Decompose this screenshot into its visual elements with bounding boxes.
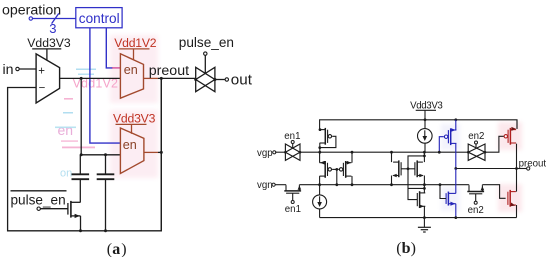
supply stub to U1 xyxy=(46,49,48,61)
wire Q5 Q6 gates tied xyxy=(401,168,415,170)
wire Q6 drain to vgp row xyxy=(423,152,425,162)
current source I2 xyxy=(418,129,433,144)
transmission gate TG3 xyxy=(468,144,485,160)
wire pulse_en to Q1 gate xyxy=(41,208,68,210)
wire Q7 source to bottom rail xyxy=(423,206,425,217)
wire operation to control xyxy=(33,18,76,20)
wire pulse_en to TG1 xyxy=(204,55,206,73)
node vgn CS1 xyxy=(318,183,321,186)
supply bar Vdd3V3 b xyxy=(416,109,436,111)
node vgp Q5 xyxy=(390,151,393,154)
stub N2 left to vgn xyxy=(468,185,470,186)
node vgp Q9 gate xyxy=(438,151,441,154)
node TG1 input xyxy=(194,78,197,81)
wire Q5 drain to vgp row xyxy=(391,152,393,162)
svg-text:in: in xyxy=(3,62,14,78)
terminal en2 bottom xyxy=(474,201,477,204)
node rail blue PMOS xyxy=(454,118,457,121)
node mirror gates xyxy=(407,167,410,170)
wire N1 gate to terminal xyxy=(292,193,294,200)
op-amp U1 xyxy=(36,54,60,103)
red NMOS Q12 xyxy=(509,190,511,207)
wire in to U1 plus xyxy=(19,68,36,70)
cascode PMOS Q4 xyxy=(345,161,347,178)
node cap rail C2 xyxy=(104,153,107,156)
wire down to cap node xyxy=(80,78,82,154)
wire TG1 to out xyxy=(215,79,225,81)
svg-text:): ) xyxy=(411,240,416,257)
wire Q9 gate to vgp row (blue) xyxy=(439,137,444,153)
wire U1 output xyxy=(60,77,121,79)
supply bar Vdd3V3 U3 xyxy=(116,123,147,125)
pink halo around red amp U3 region xyxy=(110,110,158,178)
node cap rail left xyxy=(80,153,83,156)
svg-text:pulse_en: pulse_en xyxy=(179,35,234,50)
wire preout to terminal xyxy=(517,168,527,170)
current source I1 xyxy=(319,185,321,195)
pink halo red NMOS Q12 xyxy=(498,184,522,212)
bottom rail xyxy=(320,217,517,219)
blue halo blue PMOS Q9 xyxy=(441,124,460,150)
svg-text:pulse_en: pulse_en xyxy=(11,193,66,208)
transmission gate TG2 xyxy=(285,144,300,160)
node bottom rail Q10 xyxy=(454,216,457,219)
wire Q11 source to rail xyxy=(516,120,518,129)
node vgn Q6 xyxy=(423,183,426,186)
diode PMOS Q2 xyxy=(324,128,326,145)
stub N1 right to vgn xyxy=(298,184,300,187)
bus slash 3-bit xyxy=(52,13,59,23)
terminal operation xyxy=(29,17,32,20)
wire TG2 to mirror xyxy=(300,151,320,153)
control block U5 xyxy=(76,8,122,28)
node preout xyxy=(160,77,163,80)
wire Q11 drain to preout xyxy=(516,144,518,169)
stub N1 left to vgn xyxy=(285,184,287,187)
node vgn Q5 xyxy=(390,183,393,186)
node rail Vdd stub xyxy=(424,118,427,121)
node U1 output junction xyxy=(80,77,83,80)
terminal preout xyxy=(527,167,530,170)
mirror NMOS Q6 diode xyxy=(416,160,418,177)
transistor Q1 xyxy=(67,203,69,215)
stub en2 to TG3 xyxy=(475,144,477,149)
node vgp Q6 xyxy=(423,151,426,154)
svg-text:Vdd3V3: Vdd3V3 xyxy=(113,111,156,125)
wire U3 output xyxy=(144,151,158,153)
wire TG3 to red PMOS gate xyxy=(485,136,504,152)
wire Q9 drain down (blue) xyxy=(455,143,457,168)
wire Q1 source to ground rail xyxy=(80,216,82,231)
node preout Q11 xyxy=(515,167,518,170)
wire gate tie to vgn row xyxy=(336,169,338,184)
node Q6 diode tie xyxy=(423,155,426,158)
node vgp Q4 xyxy=(351,151,354,154)
svg-text:en1: en1 xyxy=(285,204,301,215)
terminal vgp xyxy=(273,151,276,154)
wire I2 to vgp row xyxy=(424,143,426,152)
level shifter amp U2 (en) xyxy=(120,54,143,98)
wire control to en amp U3 (blue) xyxy=(90,28,121,143)
wire en input overlap segment (magenta artifact) xyxy=(112,67,120,69)
svg-text:+: + xyxy=(38,65,45,77)
pass NMOS N2 en2 xyxy=(467,191,484,193)
node TG1 output xyxy=(213,78,216,81)
stub en1 to TG2 xyxy=(292,144,294,149)
wire N2 gate to terminal xyxy=(475,194,477,201)
wire Q12 source to bottom rail xyxy=(516,205,518,218)
top rail Vdd xyxy=(320,120,517,130)
ground xyxy=(423,218,425,228)
cascode PMOS Q3 xyxy=(324,161,326,178)
wire Q10 gate to vgn row xyxy=(440,185,446,199)
wire Q7 drain from vgn row xyxy=(423,185,425,193)
terminal en1 TG2 xyxy=(291,141,294,144)
svg-text:3: 3 xyxy=(49,21,56,36)
vgp row wire middle xyxy=(320,151,456,153)
wire Q2 source to rail xyxy=(319,128,322,131)
wire Q4 drain to vgn row xyxy=(351,176,353,185)
wire mirror gates to Q7 xyxy=(408,169,417,200)
svg-text:preout: preout xyxy=(149,63,189,79)
node vgp Q2 xyxy=(318,151,321,154)
terminal en1 bottom xyxy=(291,201,294,204)
wire branch to Q7 drain xyxy=(408,187,424,189)
pass NMOS N1 en1 xyxy=(284,190,301,192)
wire Q9 source to rail (blue) xyxy=(455,120,457,130)
node C2 bottom xyxy=(104,229,107,232)
supply stub to rail xyxy=(424,110,426,120)
node vgn gate tie xyxy=(335,183,338,186)
wire Q5 source to vgn row xyxy=(391,176,393,185)
bias NMOS Q7 diode xyxy=(419,191,421,208)
svg-text:Vdd3V3: Vdd3V3 xyxy=(27,36,71,50)
svg-text:b: b xyxy=(402,240,411,257)
blue PMOS Q9 xyxy=(450,128,452,145)
wire Q3 drain to vgn row xyxy=(319,176,321,185)
preout row wire xyxy=(456,168,517,170)
level shifter amp U3 (en) xyxy=(120,128,143,174)
svg-text:out: out xyxy=(231,71,253,88)
svg-text:preout: preout xyxy=(519,158,547,169)
svg-text:en: en xyxy=(58,122,74,138)
terminal en2 TG3 xyxy=(475,141,478,144)
svg-text:en: en xyxy=(123,138,137,152)
wire N2 to red NMOS gate xyxy=(482,185,505,199)
svg-text:): ) xyxy=(121,241,126,257)
wire U2 output preout xyxy=(144,77,159,79)
wire preout down xyxy=(160,78,162,230)
wire Q4 source to vgp row xyxy=(351,152,353,163)
node preout Q9 xyxy=(454,167,457,170)
mirror NMOS Q5 xyxy=(398,160,400,177)
supply bar Vdd1V2 xyxy=(119,48,150,50)
svg-text:operation: operation xyxy=(2,3,61,19)
wire Q2 gate diode loop xyxy=(320,136,336,147)
node U3 output xyxy=(160,151,163,154)
wire vgp to TG2 xyxy=(275,151,285,153)
wire cap rail to U3 input xyxy=(81,154,120,156)
supply stub to U2 xyxy=(133,49,135,60)
wire Q6 source down xyxy=(423,176,425,185)
node Q1 source rail xyxy=(79,229,82,232)
vgn row wire middle xyxy=(299,184,469,186)
node vgn Q4 xyxy=(351,183,354,186)
wire Q10 drain to preout (blue) xyxy=(455,169,457,194)
svg-text:vgp: vgp xyxy=(257,148,273,159)
supply bar Vdd3V3 U1 xyxy=(32,48,61,50)
terminal pulse_en gate xyxy=(37,207,40,210)
blue halo blue NMOS Q10 xyxy=(441,187,460,211)
transmission gate TG1 xyxy=(196,67,215,91)
svg-text:a: a xyxy=(112,241,120,257)
svg-text:on: on xyxy=(60,168,72,180)
svg-text:Vdd1V2: Vdd1V2 xyxy=(114,36,157,50)
terminal pulse_en TG1 xyxy=(204,52,207,55)
node Q2 gate-drain xyxy=(318,146,321,149)
svg-text:en2: en2 xyxy=(468,205,484,216)
svg-text:en: en xyxy=(124,63,138,77)
svg-text:vgn: vgn xyxy=(257,180,273,191)
terminal in xyxy=(16,67,19,70)
wire control to en amp U2 (blue) xyxy=(106,28,113,68)
wire vgn to switch N1 xyxy=(275,184,286,186)
wire gate tie to Q6 drain xyxy=(408,156,424,169)
node bottom rail ground xyxy=(423,216,426,219)
node vgn Q10 gate xyxy=(439,183,442,186)
red PMOS Q11 xyxy=(509,128,511,145)
wire Q10 source to bottom rail (blue) xyxy=(455,204,457,218)
wire Q2 drain to vgp row xyxy=(319,143,321,152)
vgp row wire to TG3 xyxy=(456,151,469,153)
wire Q12 drain to preout xyxy=(516,169,518,192)
wire Q3 source from vgp row xyxy=(319,152,321,163)
capacitor C2 xyxy=(105,155,107,175)
wire I1 to bottom rail xyxy=(319,209,321,218)
svg-text:control: control xyxy=(79,11,120,26)
ghost underline (artifact) xyxy=(62,147,95,149)
stub N2 right to vgn xyxy=(481,185,483,186)
pink halo red PMOS Q11 xyxy=(498,122,522,150)
terminal vgn xyxy=(272,183,275,186)
wire U1 minus feedback loop xyxy=(8,78,162,230)
pink halo around red amp U2 region xyxy=(110,35,158,103)
capacitor C1 xyxy=(79,155,81,175)
terminal out xyxy=(225,78,228,81)
blue NMOS Q10 xyxy=(447,192,449,206)
ghost dashes (artifact) xyxy=(76,69,96,71)
supply stub to U3 xyxy=(131,124,133,133)
svg-text:−: − xyxy=(39,83,46,95)
wire Q3 Q4 gates tied xyxy=(332,168,337,170)
node Q7 gate-drain tie xyxy=(423,187,426,190)
